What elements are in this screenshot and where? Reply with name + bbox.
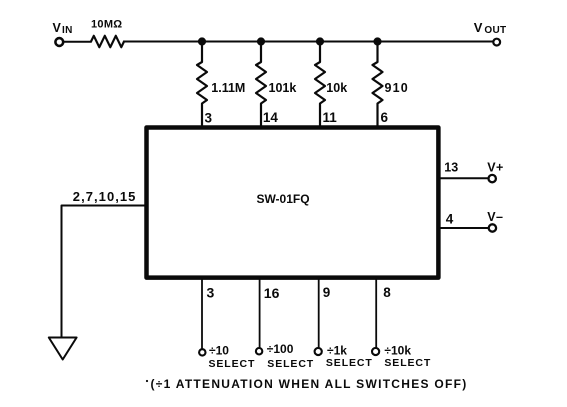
svg-text:14: 14 xyxy=(263,110,279,125)
svg-text:1.11M: 1.11M xyxy=(211,81,245,95)
label VOUT xyxy=(474,20,507,36)
svg-text:101k: 101k xyxy=(269,81,297,95)
svg-text:V: V xyxy=(474,20,483,35)
wire pin 3 bottom select 10 xyxy=(201,280,203,349)
IC U1 SW-01FQ body xyxy=(147,128,439,278)
svg-text:11: 11 xyxy=(323,110,338,125)
pin 4 wire V- xyxy=(440,227,489,229)
svg-text:10k: 10k xyxy=(326,81,347,95)
resistor R1 10M xyxy=(91,36,124,47)
svg-text:÷10: ÷10 xyxy=(209,344,229,358)
svg-text:13: 13 xyxy=(444,160,458,174)
svg-text:÷100: ÷100 xyxy=(267,342,294,356)
svg-text:÷10k: ÷10k xyxy=(384,344,411,358)
svg-text:6: 6 xyxy=(381,110,389,125)
node VOUT terminal xyxy=(493,39,500,46)
pin 13 wire V+ xyxy=(440,177,489,179)
resistor R3 101k to pin 14 xyxy=(256,42,266,127)
svg-text:10MΩ: 10MΩ xyxy=(91,19,122,31)
svg-text:2,7,10,15: 2,7,10,15 xyxy=(73,189,137,204)
svg-text:9: 9 xyxy=(323,285,331,300)
wire pin 9 bottom select 1k xyxy=(318,280,320,347)
svg-text:3: 3 xyxy=(207,284,215,300)
svg-text:OUT: OUT xyxy=(484,25,506,36)
svg-text:16: 16 xyxy=(264,285,280,301)
svg-text:SELECT: SELECT xyxy=(326,357,373,369)
svg-text:V+: V+ xyxy=(487,160,503,174)
junction dot C xyxy=(316,38,323,45)
node VIN terminal xyxy=(55,38,63,46)
resistor R2 1.11M to pin 3 xyxy=(197,42,207,127)
svg-text:SELECT: SELECT xyxy=(209,358,256,370)
resistor R5 910 to pin 6 xyxy=(373,42,383,127)
wire pin 16 bottom select 100 xyxy=(259,280,261,348)
wire VIN to resistor xyxy=(64,41,91,43)
svg-text:SW-01FQ: SW-01FQ xyxy=(256,192,309,206)
svg-text:910: 910 xyxy=(385,81,409,95)
junction dot D xyxy=(374,38,381,45)
svg-text:4: 4 xyxy=(446,212,454,227)
svg-text:SELECT: SELECT xyxy=(384,357,431,369)
ground symbol xyxy=(49,338,77,360)
note attenuation xyxy=(146,377,468,391)
svg-text:SELECT: SELECT xyxy=(267,358,314,370)
resistor R4 10k to pin 11 xyxy=(315,42,325,127)
svg-text:V–: V– xyxy=(487,210,503,224)
wire top rail to VOUT xyxy=(124,41,492,43)
svg-text:IN: IN xyxy=(62,25,73,36)
svg-text:3: 3 xyxy=(205,110,213,125)
label 10M ohm xyxy=(91,19,122,31)
junction dot A xyxy=(198,38,205,45)
wire pins 2,7,10,15 to ground xyxy=(62,206,147,338)
svg-text:(÷1 ATTENUATION WHEN ALL SWITC: (÷1 ATTENUATION WHEN ALL SWITCHES OFF) xyxy=(151,377,468,391)
svg-text:8: 8 xyxy=(383,285,391,300)
svg-text:V: V xyxy=(53,21,62,35)
junction dot B xyxy=(257,38,264,45)
wire pin 8 bottom select 10k xyxy=(375,280,377,347)
label VIN xyxy=(53,21,73,36)
svg-text:÷1k: ÷1k xyxy=(327,344,347,358)
